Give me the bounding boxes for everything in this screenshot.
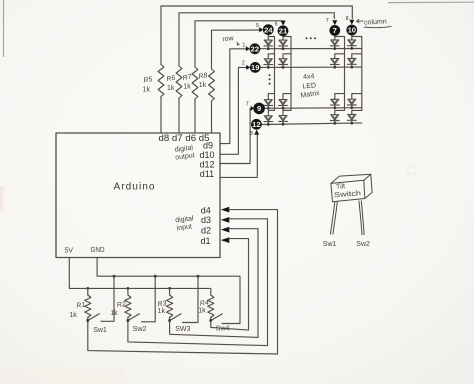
svg-text:1k: 1k	[199, 82, 207, 89]
tilt switch leg SW1	[330, 202, 337, 235]
arrow into pin 22	[246, 46, 250, 51]
wire row 4 horizontal	[262, 123, 362, 125]
resistor R8	[209, 69, 215, 101]
LED D11 anode lead	[267, 35, 269, 40]
svg-text:2: 2	[242, 61, 245, 67]
LED D21	[264, 59, 272, 64]
svg-text:7: 7	[333, 26, 337, 35]
junction dot row 2 col 1	[267, 66, 270, 69]
arrow into pin 7	[332, 20, 337, 25]
wire column 4 bus	[352, 37, 362, 111]
wire GND drop to SW3 terminal	[183, 276, 199, 322]
svg-text:1k: 1k	[158, 308, 166, 315]
arrow into pin 9	[251, 106, 255, 111]
svg-text:R3: R3	[157, 300, 167, 308]
wire R5 top lead up and over to LED matrix	[161, 6, 352, 65]
wire column 1 bus	[268, 37, 274, 111]
junction dot R1 bottom node	[86, 319, 89, 322]
matrix pin 24 pad	[263, 24, 274, 35]
wire R7 lower lead to Arduino top pin	[194, 99, 196, 133]
svg-text:1k: 1k	[167, 85, 175, 92]
wire R6 lower lead to Arduino top pin	[178, 98, 180, 133]
junction dot 5V rail at R1	[86, 287, 89, 290]
wire column 2 bus	[283, 37, 291, 111]
wire SW4 junction to d1	[211, 239, 249, 331]
junction dot row 3 col 2	[282, 107, 285, 110]
svg-text:8: 8	[346, 16, 349, 22]
junction dot row 2 col 4	[350, 66, 353, 69]
switch SW4 lever	[211, 314, 222, 320]
svg-text:R2: R2	[117, 301, 127, 309]
resistor R2	[127, 288, 129, 295]
LED D11	[264, 40, 272, 45]
wire GND rail wrapping to SW4 terminal	[97, 258, 240, 324]
resistor R6	[176, 66, 182, 98]
svg-text:5V: 5V	[65, 248, 74, 255]
svg-text:1k: 1k	[69, 312, 77, 319]
wire column 3 bus	[335, 37, 345, 111]
wire GND drop to SW2 terminal	[142, 276, 156, 322]
svg-text:5: 5	[256, 23, 259, 29]
wire d9 to row pin 22	[220, 49, 246, 144]
LED D13 anode lead	[334, 35, 336, 40]
wire row 1 horizontal	[260, 48, 362, 50]
junction dot R2 bottom node	[126, 319, 129, 322]
LED D42	[279, 116, 287, 121]
svg-text:d3: d3	[201, 215, 211, 225]
row ellipsis dots	[269, 74, 271, 76]
svg-text:1k: 1k	[110, 310, 118, 317]
switch SW2 lever	[128, 314, 139, 320]
junction dot row 4 col 3	[333, 122, 336, 125]
LED D31 anode jog from column bus	[268, 94, 274, 100]
Arduino U1 body	[56, 133, 220, 258]
LED D31	[264, 100, 272, 105]
svg-text:9: 9	[257, 104, 261, 113]
LED D12 anode lead	[282, 35, 284, 40]
svg-text:GND: GND	[91, 247, 105, 254]
arrow into pin 21	[281, 21, 286, 26]
svg-text:6: 6	[275, 21, 278, 27]
LED D34 anode jog from column bus	[352, 94, 362, 100]
wire d12 to row pin 9	[220, 108, 251, 163]
arrow into Arduino d1	[221, 237, 230, 243]
junction dot GND rail at SW1	[113, 275, 116, 278]
wire R6 top lead up and over to LED matrix	[179, 13, 334, 66]
svg-text:10: 10	[348, 26, 356, 35]
LED D32	[279, 100, 287, 105]
junction dot row 4 col 2	[282, 123, 285, 126]
LED D44	[348, 115, 356, 120]
wire SW1 junction to d4	[88, 210, 278, 354]
LED D43 anode jog from column bus	[335, 110, 345, 114]
arrow into pin 24	[259, 27, 263, 32]
wire 5V rail	[69, 258, 210, 289]
svg-text:7: 7	[326, 18, 329, 24]
resistor R5	[158, 65, 164, 97]
LED D14	[348, 40, 356, 45]
svg-text:d8 d7 d6 d5: d8 d7 d6 d5	[159, 133, 210, 143]
svg-text:1k: 1k	[143, 86, 151, 93]
LED D23 anode jog from column bus	[335, 54, 345, 59]
LED D41	[264, 116, 272, 121]
wire GND drop to SW1 terminal	[101, 276, 114, 321]
junction dot row 4 col 4	[350, 122, 353, 125]
svg-text:Tilt: Tilt	[336, 183, 346, 191]
svg-text:21: 21	[279, 27, 288, 36]
junction dot row 1 col 3	[333, 47, 336, 50]
column ellipsis dots	[306, 37, 308, 39]
LED D33 anode jog from column bus	[335, 94, 345, 100]
svg-text:Arduino: Arduino	[114, 182, 156, 193]
svg-text:19: 19	[251, 63, 259, 72]
LED D24	[348, 59, 356, 64]
wire row 2 horizontal	[261, 66, 362, 68]
junction dot 5V rail at R2	[127, 287, 130, 290]
svg-text:d11: d11	[200, 169, 214, 179]
junction dot row 2 col 3	[333, 66, 336, 69]
LED D41 anode jog from column bus	[268, 110, 274, 115]
LED D22 anode jog from column bus	[283, 54, 291, 59]
arrow into pin 19	[246, 65, 250, 70]
junction dot GND rail at SW2	[154, 275, 157, 278]
LED D21 anode jog from column bus	[268, 54, 274, 59]
resistor R7	[192, 67, 198, 99]
junction dot row 3 col 3	[333, 107, 336, 110]
svg-text:4x4: 4x4	[303, 73, 315, 81]
svg-text:Sw1: Sw1	[93, 327, 107, 334]
svg-text:Sw2: Sw2	[133, 326, 147, 333]
matrix pin 21 pad	[278, 25, 289, 36]
switch SW1 lever	[88, 314, 99, 320]
junction dot row 4 col 1	[267, 123, 270, 126]
svg-text:d1: d1	[201, 236, 211, 246]
arrow into pin 10	[349, 20, 354, 25]
LED D43	[331, 115, 339, 120]
wire SW3 junction to d2	[170, 229, 258, 338]
svg-text:R1: R1	[76, 302, 86, 310]
junction dot row 2 col 2	[282, 66, 285, 69]
arrow into Arduino d4	[221, 207, 230, 213]
svg-text:Sw1: Sw1	[323, 241, 337, 248]
wire d11 to row pin 12	[220, 134, 257, 177]
svg-text:Sw2: Sw2	[356, 241, 370, 248]
resistor R1	[87, 288, 89, 295]
LED D14 anode lead	[351, 35, 353, 40]
junction dot row 3 col 4	[350, 106, 353, 109]
junction dot row 1 col 4	[350, 47, 353, 50]
svg-text:24: 24	[264, 25, 273, 34]
wire R8 top lead up and over to LED matrix	[212, 30, 260, 69]
arrow into Arduino d2	[221, 227, 230, 233]
LED D24 anode jog from column bus	[352, 54, 362, 59]
svg-text:column: column	[364, 18, 387, 26]
svg-text:SW3: SW3	[175, 326, 190, 333]
matrix pin 12 pad	[251, 119, 262, 130]
LED D12	[279, 40, 287, 45]
svg-text:Sw4: Sw4	[216, 325, 230, 332]
arrow into pin 12 from below	[254, 130, 259, 135]
junction dot R4 bottom node	[209, 319, 212, 322]
svg-text:1k: 1k	[183, 84, 191, 91]
junction dot row 1 col 1	[267, 47, 270, 50]
LED D23	[331, 59, 339, 64]
wire R5 lower lead to Arduino top pin	[160, 97, 162, 134]
wire R7 top lead up and over to LED matrix	[195, 21, 283, 67]
matrix pin 10 pad	[346, 25, 357, 36]
matrix pin 22 pad	[250, 43, 261, 54]
LED D42 anode jog from column bus	[283, 110, 291, 115]
wire SW2 junction to d3	[128, 219, 268, 346]
LED D13	[331, 40, 339, 45]
LED D32 anode jog from column bus	[283, 94, 291, 100]
svg-text:12: 12	[252, 120, 260, 129]
svg-text:LED: LED	[302, 82, 316, 90]
svg-text:d2: d2	[201, 225, 211, 235]
junction dot row 3 col 1	[267, 107, 270, 110]
svg-text:1k: 1k	[198, 308, 206, 315]
resistor R3	[169, 288, 171, 295]
svg-text:8: 8	[250, 131, 253, 137]
svg-text:1: 1	[242, 43, 245, 49]
LED D33	[331, 99, 339, 104]
svg-text:d4: d4	[201, 206, 211, 216]
wire R8 lower lead to Arduino top pin	[211, 101, 213, 133]
wire row 3 horizontal	[265, 107, 362, 110]
LED D44 anode jog from column bus	[352, 110, 362, 114]
junction dot 5V rail at R3	[168, 287, 171, 290]
switch SW3 lever	[170, 314, 181, 320]
matrix pin 9 pad	[253, 103, 265, 115]
svg-text:22: 22	[251, 45, 259, 54]
tilt switch leg SW2	[359, 200, 364, 235]
arrow into Arduino d3	[221, 217, 230, 223]
svg-text:7: 7	[246, 101, 249, 107]
matrix pin 7 pad	[329, 25, 340, 36]
junction dot GND rail at SW3	[197, 275, 200, 278]
LED D34	[348, 99, 356, 104]
junction dot row 1 col 2	[282, 47, 285, 50]
svg-text:row: row	[222, 35, 235, 43]
junction dot R3 bottom node	[168, 319, 171, 322]
tilt switch body	[331, 174, 372, 201]
resistor R4	[210, 288, 212, 295]
svg-text:R4: R4	[200, 299, 210, 307]
matrix pin 19 pad	[250, 62, 261, 73]
wire d10 to row pin 19	[220, 67, 246, 154]
LED D22	[279, 59, 287, 64]
